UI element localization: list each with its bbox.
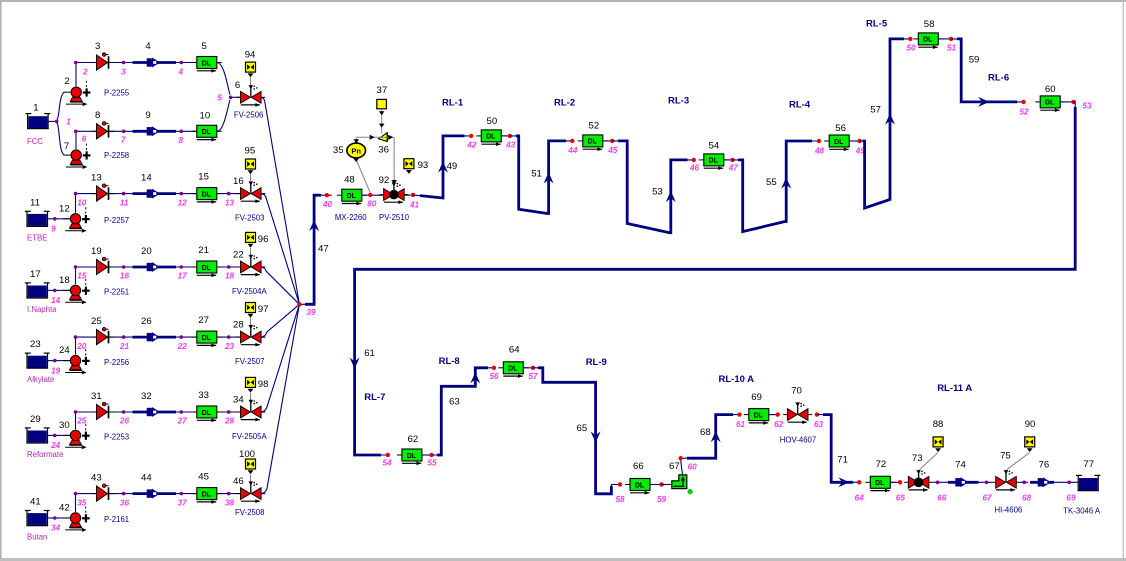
svg-text:15: 15 [198,172,209,183]
svg-text:DL: DL [202,410,212,417]
svg-text:P-2258: P-2258 [104,151,129,160]
svg-text:49: 49 [447,161,458,172]
svg-text:DL: DL [588,139,598,146]
svg-text:P-2257: P-2257 [104,216,129,225]
svg-text:45: 45 [198,472,209,483]
svg-text:27: 27 [177,417,188,426]
svg-text:DL: DL [754,412,764,419]
svg-text:57: 57 [528,372,538,381]
svg-text:12: 12 [178,198,188,207]
svg-text:22: 22 [233,250,244,261]
svg-text:69: 69 [751,392,762,403]
svg-text:MX-2260: MX-2260 [335,213,367,222]
svg-text:25: 25 [91,316,102,327]
svg-text:6: 6 [82,135,87,144]
svg-text:38: 38 [225,498,235,507]
svg-text:60: 60 [1045,84,1056,95]
svg-text:32: 32 [141,391,152,402]
svg-text:40: 40 [322,200,333,209]
svg-text:39: 39 [307,308,317,317]
svg-text:8: 8 [179,136,184,145]
svg-text:DL: DL [508,366,518,373]
svg-text:26: 26 [119,417,130,426]
svg-text:HI-4606: HI-4606 [995,506,1023,515]
svg-text:74: 74 [955,459,966,470]
svg-text:33: 33 [198,390,209,401]
svg-text:66: 66 [633,461,644,472]
svg-text:13: 13 [225,198,235,207]
svg-text:P-2161: P-2161 [104,515,129,524]
svg-text:65: 65 [577,423,588,434]
svg-text:28: 28 [224,417,235,426]
svg-text:51: 51 [947,44,957,53]
svg-text:35: 35 [333,145,344,156]
svg-text:10: 10 [200,110,211,121]
svg-text:71: 71 [837,455,848,466]
svg-text:13: 13 [91,173,102,184]
svg-text:98: 98 [258,379,269,390]
svg-text:DL: DL [875,480,885,487]
svg-text:26: 26 [141,316,152,327]
svg-text:18: 18 [59,275,70,286]
svg-text:67: 67 [669,461,680,472]
svg-text:73: 73 [912,453,923,464]
svg-text:19: 19 [51,366,61,375]
svg-text:RL-3: RL-3 [668,96,689,107]
svg-text:DL: DL [202,491,212,498]
svg-text:17: 17 [30,269,41,280]
svg-text:14: 14 [141,173,152,184]
svg-text:88: 88 [933,419,944,430]
svg-text:34: 34 [233,395,244,406]
svg-text:35: 35 [77,498,87,507]
svg-text:30: 30 [59,420,70,431]
svg-text:27: 27 [198,315,209,326]
svg-text:63: 63 [814,420,824,429]
svg-text:68: 68 [1022,493,1032,502]
svg-text:53: 53 [1082,102,1092,111]
svg-text:20: 20 [76,342,87,351]
svg-text:100: 100 [239,449,255,460]
svg-text:16: 16 [120,272,130,281]
svg-text:6: 6 [235,80,240,91]
svg-text:18: 18 [225,272,235,281]
svg-text:67: 67 [983,493,993,502]
svg-text:58: 58 [924,19,935,30]
svg-text:DL: DL [635,482,645,489]
svg-text:RL-6: RL-6 [988,73,1009,84]
svg-text:Pn: Pn [351,146,361,155]
svg-text:11: 11 [30,197,40,208]
svg-text:7: 7 [121,136,126,145]
svg-text:3: 3 [121,67,126,76]
svg-text:Butan: Butan [27,533,47,542]
svg-text:DL: DL [202,129,212,136]
svg-text:RL-1: RL-1 [442,98,464,109]
svg-text:FV-2505A: FV-2505A [232,432,267,441]
svg-text:20: 20 [141,246,152,257]
svg-text:P-2253: P-2253 [104,433,129,442]
svg-text:29: 29 [30,414,41,425]
svg-text:95: 95 [245,146,256,157]
svg-text:52: 52 [589,121,600,132]
svg-text:19: 19 [91,246,102,257]
svg-text:75: 75 [1000,451,1011,462]
svg-text:45: 45 [607,146,618,155]
svg-text:DL: DL [834,139,844,146]
svg-text:59: 59 [657,495,667,504]
svg-text:8: 8 [95,110,100,121]
svg-text:RL-2: RL-2 [554,98,575,109]
svg-text:12: 12 [59,203,70,214]
svg-text:24: 24 [50,441,61,450]
svg-text:23: 23 [224,342,235,351]
svg-text:55: 55 [428,459,438,468]
svg-text:DL: DL [347,193,357,200]
svg-text:RL-8: RL-8 [439,356,460,367]
svg-text:DL: DL [407,453,417,460]
svg-text:50: 50 [907,44,917,53]
svg-text:48: 48 [814,147,825,156]
svg-text:64: 64 [855,493,865,502]
svg-text:66: 66 [937,493,947,502]
svg-text:FV-2507: FV-2507 [235,357,264,366]
svg-text:46: 46 [689,164,700,173]
svg-text:FV-2508: FV-2508 [235,508,264,517]
svg-text:FCC: FCC [27,137,43,146]
svg-text:97: 97 [258,304,269,315]
svg-text:54: 54 [383,459,393,468]
svg-text:FV-2503: FV-2503 [235,214,264,223]
svg-text:P-2251: P-2251 [104,288,129,297]
svg-text:21: 21 [119,342,130,351]
svg-text:ETBE: ETBE [27,233,47,242]
svg-text:51: 51 [531,169,542,180]
svg-text:41: 41 [30,497,41,508]
svg-text:2: 2 [82,67,88,76]
svg-text:23: 23 [30,339,41,350]
svg-text:57: 57 [870,105,881,116]
svg-text:PV-2510: PV-2510 [379,213,410,222]
svg-text:59: 59 [969,54,980,65]
svg-text:I.Naphta: I.Naphta [27,305,57,314]
svg-text:90: 90 [1025,419,1036,430]
svg-text:76: 76 [1039,459,1050,470]
svg-text:2: 2 [64,76,69,87]
svg-text:41: 41 [409,200,420,209]
svg-text:Reformate: Reformate [27,450,63,459]
svg-text:68: 68 [700,427,711,438]
svg-text:FV-2506: FV-2506 [234,110,263,119]
svg-text:RL-11 A: RL-11 A [937,383,972,394]
svg-text:14: 14 [51,296,61,305]
svg-text:4: 4 [145,41,151,52]
svg-text:62: 62 [774,420,784,429]
svg-text:9: 9 [145,110,150,121]
svg-text:34: 34 [51,524,61,533]
svg-text:92: 92 [379,175,390,186]
svg-text:TK-3046 A: TK-3046 A [1063,507,1101,516]
svg-text:72: 72 [876,459,887,470]
svg-text:10: 10 [77,198,87,207]
svg-text:HOV-4607: HOV-4607 [780,436,816,445]
svg-text:37: 37 [178,498,188,507]
svg-text:RL-7: RL-7 [364,392,385,403]
svg-text:RL-4: RL-4 [789,100,811,111]
svg-text:4: 4 [178,67,184,76]
svg-text:56: 56 [835,123,846,134]
svg-text:P-2255: P-2255 [104,89,130,98]
svg-text:DL: DL [202,265,212,272]
svg-text:94: 94 [245,50,256,61]
svg-text:42: 42 [59,503,70,514]
svg-text:61: 61 [364,348,375,359]
svg-text:P-2256: P-2256 [104,358,129,367]
svg-text:DL: DL [709,158,719,165]
svg-text:93: 93 [418,160,429,171]
svg-text:69: 69 [1066,494,1076,503]
svg-text:28: 28 [233,320,244,331]
svg-text:5: 5 [217,94,222,103]
svg-text:FV-2504A: FV-2504A [232,287,267,296]
svg-text:47: 47 [728,164,739,173]
svg-text:DL: DL [1045,100,1055,107]
svg-text:DL: DL [202,191,212,198]
svg-text:80: 80 [367,200,377,209]
svg-text:DL: DL [202,60,212,67]
svg-text:77: 77 [1083,459,1094,470]
svg-text:36: 36 [378,145,389,156]
svg-text:15: 15 [77,272,87,281]
svg-text:65: 65 [896,493,906,502]
svg-text:70: 70 [791,386,802,397]
svg-text:48: 48 [344,174,355,185]
svg-text:43: 43 [91,473,102,484]
svg-text:25: 25 [76,417,87,426]
svg-text:55: 55 [766,177,777,188]
svg-text:53: 53 [652,187,663,198]
svg-text:9: 9 [51,225,56,234]
svg-text:24: 24 [59,345,70,356]
svg-text:RL-5: RL-5 [866,19,888,30]
svg-text:63: 63 [449,396,460,407]
svg-text:5: 5 [202,41,207,52]
svg-text:Alkylate: Alkylate [27,375,54,384]
svg-text:46: 46 [233,476,244,487]
svg-text:60: 60 [688,463,698,472]
svg-text:7: 7 [64,141,69,152]
svg-text:1: 1 [33,103,38,114]
svg-text:1: 1 [66,117,71,126]
svg-text:96: 96 [258,234,269,245]
svg-text:43: 43 [505,141,516,150]
svg-text:DL: DL [202,335,212,342]
svg-text:36: 36 [120,498,130,507]
svg-text:11: 11 [120,198,129,207]
svg-text:16: 16 [233,176,244,187]
svg-text:50: 50 [487,116,498,127]
svg-text:44: 44 [141,473,152,484]
svg-text:37: 37 [377,85,388,96]
svg-text:58: 58 [616,495,626,504]
svg-text:DL: DL [486,134,496,141]
svg-text:17: 17 [178,272,188,281]
svg-text:31: 31 [91,391,102,402]
svg-text:54: 54 [709,140,720,151]
svg-text:22: 22 [177,342,188,351]
svg-text:DL: DL [923,37,933,44]
svg-text:21: 21 [198,245,209,256]
svg-text:47: 47 [318,244,329,255]
svg-text:56: 56 [490,372,500,381]
svg-text:64: 64 [509,345,520,356]
svg-text:3: 3 [95,41,100,52]
svg-text:61: 61 [736,420,746,429]
svg-text:42: 42 [466,141,477,150]
svg-text:62: 62 [408,434,419,445]
svg-text:52: 52 [1020,108,1030,117]
svg-text:RL-10 A: RL-10 A [719,374,755,385]
svg-text:RL-9: RL-9 [586,357,607,368]
svg-text:44: 44 [567,146,578,155]
